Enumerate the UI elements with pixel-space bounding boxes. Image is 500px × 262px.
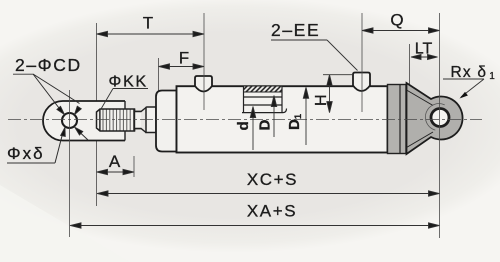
svg-text:d: d (235, 121, 252, 130)
svg-text:D: D (257, 120, 274, 131)
svg-text:ΦKK: ΦKK (109, 74, 149, 91)
svg-text:T: T (143, 14, 153, 33)
svg-text:XA+S: XA+S (247, 202, 297, 221)
svg-text:XC+S: XC+S (247, 170, 298, 189)
svg-text:A: A (109, 152, 121, 171)
svg-text:Φxδ: Φxδ (7, 144, 45, 163)
svg-text:F: F (179, 49, 189, 68)
svg-text:2–EE: 2–EE (271, 20, 320, 40)
svg-text:Q: Q (390, 11, 403, 30)
svg-text:H: H (313, 94, 330, 106)
svg-text:2–ΦCD: 2–ΦCD (15, 55, 82, 75)
svg-text:LT: LT (415, 41, 433, 58)
